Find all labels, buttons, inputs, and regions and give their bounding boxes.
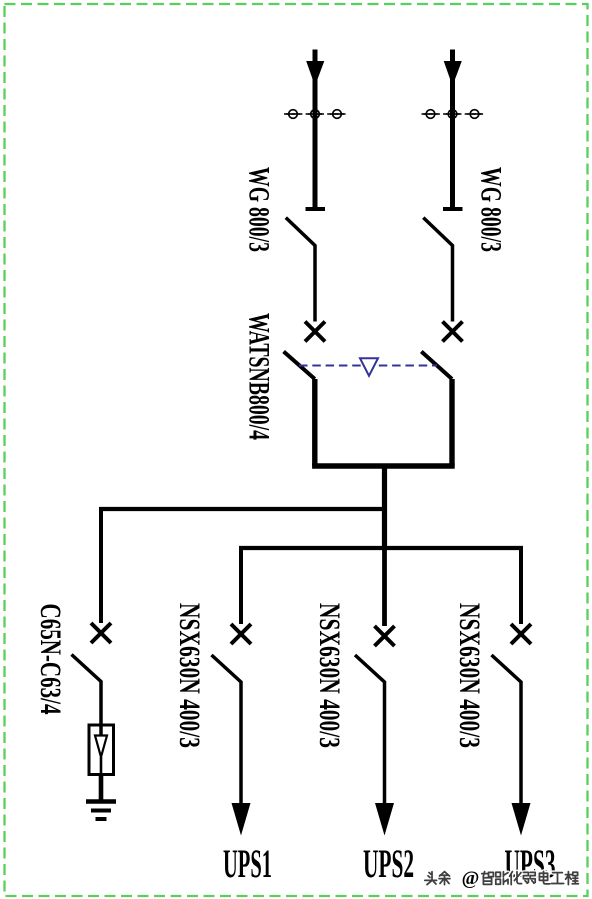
breaker QF2 contact bar	[443, 207, 463, 211]
svg-text:NSX630N 400/3: NSX630N 400/3	[313, 603, 346, 748]
svg-text:@: @	[462, 868, 480, 889]
breaker QF6 blade	[492, 655, 522, 805]
ground symbol	[86, 802, 116, 820]
feeder arrow to UPS2	[375, 803, 394, 836]
breaker QF1 contact bar	[306, 207, 326, 211]
bus stem wire	[382, 466, 387, 548]
incoming feeder arrow 1 (left supply)	[306, 50, 324, 208]
breaker QF2 X mark	[443, 322, 463, 342]
ATS switch blade right	[421, 352, 452, 380]
svg-text:NSX630N 400/3: NSX630N 400/3	[453, 603, 486, 748]
CT set feeder 1	[284, 110, 346, 119]
svg-text:C65N-C63/4: C65N-C63/4	[34, 604, 67, 715]
svg-text:NSX630N 400/3: NSX630N 400/3	[173, 603, 206, 748]
ATS switch blade left	[284, 352, 315, 380]
svg-text:UPS2: UPS2	[363, 841, 414, 886]
bus bar	[312, 463, 455, 468]
breaker QF4 X mark	[231, 624, 251, 644]
label WG 800/3 (left)	[242, 167, 275, 252]
branch 3 drop wire	[382, 548, 387, 626]
incoming feeder arrow 2 (right supply)	[444, 50, 462, 208]
distribution wire lower (branches 2 and 4)	[239, 546, 523, 550]
CT set feeder 2	[422, 110, 484, 119]
breaker QF1 X mark	[305, 322, 325, 342]
breaker QF4 blade	[212, 655, 242, 805]
SPD to ground wire	[99, 774, 104, 801]
svg-text:WG 800/3: WG 800/3	[242, 167, 275, 252]
SPD surge arrester box	[89, 725, 114, 775]
breaker QF2 blade	[423, 218, 452, 322]
watermark 头条 @智能化弱电工程	[425, 868, 579, 889]
ATS right leg wire	[449, 379, 454, 466]
breaker QF3 blade	[72, 655, 102, 737]
feeder arrow to UPS1	[232, 803, 251, 836]
breaker QF6 X mark	[511, 624, 531, 644]
svg-text:UPS1: UPS1	[223, 841, 272, 886]
ATS interlock triangle	[360, 358, 378, 376]
label C65N-C63/4	[34, 604, 67, 715]
breaker QF5 X mark	[375, 626, 395, 646]
breaker QF5 blade	[355, 655, 385, 805]
branch 4 drop wire	[519, 548, 523, 624]
breaker QF3 X mark	[91, 623, 111, 643]
svg-text:WATSNB800/4: WATSNB800/4	[242, 313, 275, 440]
breaker QF1 blade	[286, 218, 315, 322]
label NSX630N 400/3 (branch 2)	[173, 603, 206, 748]
branch 2 drop wire	[239, 548, 243, 624]
label NSX630N 400/3 (branch 4)	[453, 603, 486, 748]
label NSX630N 400/3 (branch 3)	[313, 603, 346, 748]
feeder arrow to UPS3	[512, 803, 531, 836]
svg-text:WG 800/3: WG 800/3	[474, 167, 507, 252]
label WG 800/3 (right)	[474, 167, 507, 252]
branch 1 drop wire	[99, 509, 103, 623]
label WATSNB800/4 (ATS)	[242, 313, 275, 440]
distribution wire upper (to branch 1)	[99, 507, 387, 511]
ATS interlock dashed link	[299, 365, 437, 367]
ATS left leg wire	[312, 379, 317, 466]
